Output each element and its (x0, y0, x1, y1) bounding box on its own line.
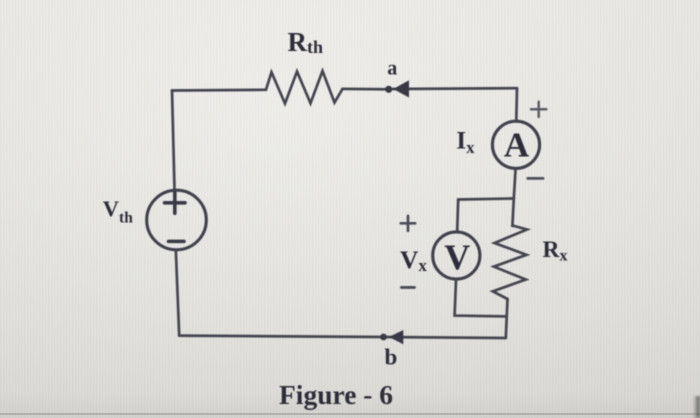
wire right top vertical (515, 88, 518, 120)
wire T junction to Rx top (512, 199, 513, 227)
wire T junction to voltmeter top (457, 199, 514, 231)
arrow at node a (393, 80, 409, 97)
svg-text:A: A (504, 125, 530, 164)
svg-text:Vx: Vx (400, 245, 427, 275)
svg-text:Rx: Rx (543, 237, 568, 264)
wire left vertical (172, 91, 175, 189)
wire node a to top-right corner (393, 87, 517, 91)
svg-text:Vth: Vth (103, 196, 133, 227)
wire Vth bottom to corner (176, 252, 179, 336)
svg-text:Rth: Rth (288, 27, 324, 57)
wire Rx bottom vertical (506, 299, 508, 338)
resistor Rx (493, 226, 527, 300)
wire ammeter bottom to T junction (514, 170, 516, 199)
resistor Rth (266, 71, 343, 104)
wire resistor to node a (343, 88, 389, 91)
minus sign below ammeter (528, 177, 543, 180)
ammeter U1 (492, 121, 539, 168)
plus sign above Vx (401, 216, 415, 231)
Vth plus sign (165, 193, 186, 214)
svg-text:a: a (387, 57, 397, 79)
node a junction dot (385, 86, 392, 93)
voltmeter U2 (433, 232, 480, 279)
wire top-left segment (172, 88, 266, 91)
svg-text:b: b (385, 345, 398, 370)
svg-text:Ix: Ix (456, 126, 475, 157)
svg-text:Figure - 6: Figure - 6 (279, 379, 393, 410)
minus sign below Vx (402, 286, 415, 289)
arrow at node b (389, 330, 404, 344)
plus sign above ammeter (531, 102, 546, 117)
Vth minus sign (169, 240, 185, 244)
node b junction dot (380, 334, 387, 341)
voltage source Vth (147, 190, 207, 250)
wire bottom (179, 336, 505, 338)
svg-text:V: V (444, 237, 470, 277)
wire voltmeter bottom branch (455, 281, 505, 317)
